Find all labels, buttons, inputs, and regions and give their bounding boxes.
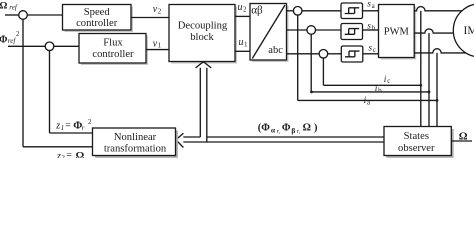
svg-text:2: 2: [62, 155, 66, 158]
wire SC feedback vertical: [322, 58, 324, 85]
label state vector (Phi_ar, Phi_br, Omega): [258, 123, 318, 135]
svg-text:observer: observer: [398, 143, 435, 154]
relay comparator block b: [341, 24, 363, 40]
summing junction SA (phase a current): [293, 7, 302, 16]
junction dot i_c tap a: [419, 84, 422, 87]
svg-text:Ω: Ω: [0, 0, 8, 11]
wire PWM phase a to motor with current sensor bump: [414, 7, 462, 11]
svg-text:Nonlinear: Nonlinear: [114, 132, 157, 143]
wire v2 Speed controller to Decoupling block: [131, 17, 169, 19]
svg-text:block: block: [190, 32, 214, 43]
svg-text:=: =: [66, 150, 72, 158]
svg-text:u: u: [239, 37, 244, 48]
svg-text:z: z: [56, 151, 61, 158]
svg-text:r,: r,: [297, 128, 301, 135]
svg-text:u: u: [238, 2, 243, 13]
wire S2 to Flux controller: [54, 45, 79, 47]
svg-text:Speed: Speed: [84, 7, 111, 18]
relay comparator block a: [341, 3, 363, 19]
bus hollow wire bottom line: [183, 141, 384, 143]
svg-text:controller: controller: [76, 18, 118, 29]
svg-text:b: b: [372, 24, 376, 32]
block alphabeta to abc transformation: [250, 4, 289, 63]
svg-text:ref: ref: [8, 37, 17, 45]
block Nonlinear transformation: [93, 128, 178, 158]
open arrowhead into decoupling block: [196, 62, 212, 68]
svg-text:2: 2: [88, 118, 92, 126]
bus hollow wire top line (observer to nonlinear/decoupling): [183, 136, 384, 138]
wire phase b from converter: [287, 29, 307, 31]
svg-text:transformation: transformation: [104, 143, 167, 154]
bus branch left wall up to decoupling: [199, 68, 201, 137]
wire phase a from converter: [287, 10, 294, 12]
label v1: [153, 38, 162, 49]
label u1: [239, 37, 249, 48]
wire current sensor tap b down to observer: [428, 33, 430, 126]
svg-text:1: 1: [244, 40, 248, 48]
svg-text:Ω: Ω: [459, 131, 468, 143]
wire current sensor tap c down to observer: [436, 53, 438, 127]
svg-text:Flux: Flux: [103, 37, 123, 48]
wire current sensor tap a down to observer: [420, 11, 422, 127]
label s_c: [368, 43, 376, 54]
svg-text:Ω: Ω: [76, 150, 85, 158]
wire i_b horizontal feedback: [311, 91, 429, 93]
svg-text:1: 1: [158, 42, 162, 50]
wire s_c relay c to PWM: [363, 53, 379, 55]
node Omega_ref input label: [0, 0, 18, 11]
wire u1 Decoupling to alphabeta-abc converter: [235, 50, 250, 52]
label i_a: [364, 96, 371, 107]
svg-text:β: β: [291, 126, 295, 135]
wire i_a horizontal feedback: [298, 99, 437, 101]
label i_b: [375, 84, 382, 94]
block States observer: [384, 127, 454, 158]
block Speed controller: [63, 5, 134, 33]
label IM: [464, 25, 474, 37]
label v2: [153, 4, 162, 15]
summing junction SC (phase c current): [319, 50, 328, 59]
junction dot i_b tap b: [428, 91, 431, 94]
svg-text:(Φ: (Φ: [258, 123, 270, 134]
summing junction S2 (flux): [45, 42, 54, 51]
wire SB to relay b: [316, 29, 342, 31]
svg-text:2: 2: [16, 31, 20, 38]
motor IM circle: [453, 4, 474, 57]
svg-text:PWM: PWM: [384, 27, 410, 38]
wire u2 Decoupling to alphabeta-abc converter: [235, 15, 250, 17]
bus branch right wall up to decoupling: [206, 68, 208, 142]
svg-text:s: s: [368, 43, 372, 53]
wire s_a relay a to PWM: [363, 10, 379, 12]
wire i_c horizontal feedback: [323, 84, 420, 86]
label s_b: [367, 21, 375, 32]
svg-text:ref: ref: [9, 4, 18, 12]
relay comparator block c: [341, 46, 363, 62]
wire SA feedback vertical: [297, 15, 299, 100]
block Decoupling block: [169, 5, 237, 64]
svg-text:s: s: [367, 0, 371, 10]
svg-text:): ): [314, 123, 317, 134]
wire SB feedback vertical: [310, 34, 312, 92]
wire speed reference input: [5, 14, 19, 16]
wire PWM phase c to motor with current sensor bump: [414, 49, 466, 53]
wire v1 Flux controller to Decoupling block: [146, 49, 169, 51]
wire flux reference input: [8, 45, 45, 47]
svg-text:s: s: [367, 21, 371, 31]
wire SC to relay c: [328, 53, 341, 55]
label i_c: [384, 75, 391, 85]
open arrowhead into nonlinear transformation: [176, 133, 184, 147]
svg-text:Φ: Φ: [0, 35, 8, 46]
svg-text:Decoupling: Decoupling: [178, 21, 228, 32]
label z2 = Omega (clipped at bottom): [56, 150, 85, 162]
svg-text:abc: abc: [268, 45, 283, 56]
label Omega output: [459, 131, 468, 143]
svg-text:αβ: αβ: [251, 4, 263, 16]
junction dot SB corner: [310, 91, 313, 94]
wire phase c from converter: [287, 53, 320, 55]
junction dot i_a tap c: [436, 99, 439, 102]
wire s_b relay b to PWM: [363, 29, 379, 31]
svg-text:1: 1: [61, 125, 64, 132]
block PWM: [379, 5, 417, 60]
svg-text:2: 2: [158, 7, 162, 15]
wire z1 output nonlinear to S2 vertical: [50, 51, 93, 133]
wire SA to relay a: [302, 10, 341, 12]
summing junction SB (phase b current): [307, 26, 316, 35]
svg-text:Ω: Ω: [303, 123, 311, 134]
wire Omega output of observer: [451, 140, 472, 142]
svg-text:b: b: [378, 86, 382, 94]
svg-text:c: c: [387, 77, 390, 85]
wire S1 to Speed controller: [27, 14, 62, 16]
svg-text:r: r: [82, 125, 85, 132]
svg-text:IM: IM: [464, 25, 474, 37]
label u2: [238, 2, 248, 13]
summing junction S1 (speed): [19, 11, 28, 20]
svg-text:r,: r,: [277, 128, 281, 135]
svg-text:States: States: [404, 131, 429, 142]
svg-text:c: c: [373, 46, 376, 54]
wire z2 output nonlinear to S1 vertical: [23, 19, 93, 147]
node Phi_ref^2 input label: [0, 31, 20, 46]
svg-text:z: z: [55, 120, 60, 131]
block Flux controller: [79, 34, 148, 66]
label z1 = Phi_r^2: [55, 118, 92, 132]
svg-text:Φ: Φ: [282, 123, 291, 134]
svg-text:2: 2: [243, 5, 247, 13]
wire PWM phase b to motor with current sensor bump: [414, 29, 453, 33]
label s_a: [367, 0, 375, 10]
svg-text:controller: controller: [92, 49, 134, 60]
svg-text:=: =: [65, 120, 71, 131]
